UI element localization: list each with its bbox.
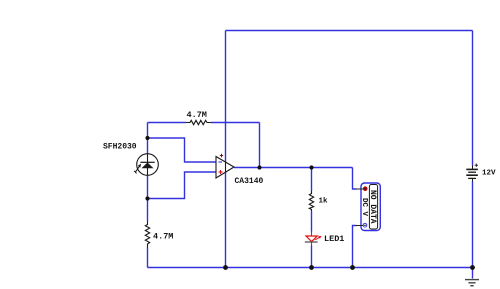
- battery B1 12V: [466, 164, 478, 182]
- plus mark: [475, 164, 478, 166]
- pin + non-inverting mark: [219, 170, 223, 174]
- wire op-amp V+ supply vertical: [225, 31, 227, 268]
- wire op-amp output: [234, 167, 353, 169]
- LED LED1: [305, 232, 322, 246]
- svg-text:4.7M: 4.7M: [187, 110, 207, 120]
- svg-text:NO DATA: NO DATA: [368, 190, 377, 224]
- wire feedback horizontal: [148, 122, 187, 124]
- svg-text:DC V: DC V: [360, 198, 368, 217]
- wire left branch resistor bottom: [147, 248, 149, 268]
- pin - inverting mark: [219, 161, 223, 163]
- wire left branch photodiode top: [147, 123, 149, 155]
- wire left branch photodiode bottom: [147, 175, 149, 221]
- wire LED branch bottom: [311, 246, 313, 268]
- pin + power mark: [220, 154, 223, 157]
- photodiode D1 SFH2030: [134, 154, 158, 176]
- wire battery top vertical: [472, 31, 474, 166]
- wire meter minus lead: [353, 226, 357, 268]
- wire feedback vertical to output: [259, 123, 261, 168]
- wire LED branch middle: [311, 211, 313, 232]
- junction node non-inverting: [145, 196, 149, 200]
- resistor R1 4.7M horizontal feedback: [186, 120, 211, 124]
- wire non-inverting input: [148, 172, 217, 199]
- junction node LED branch top: [309, 165, 313, 169]
- wire meter plus lead: [353, 168, 357, 190]
- pin V+/V- stem through body: [225, 162, 227, 173]
- junction node supply bottom: [223, 265, 228, 270]
- svg-text:LED1: LED1: [324, 234, 344, 244]
- junction node meter bottom: [350, 265, 355, 270]
- svg-text:4.7M: 4.7M: [153, 232, 173, 242]
- ground: [465, 268, 479, 286]
- wire inverting input: [148, 138, 217, 162]
- terminal -: [356, 225, 363, 227]
- junction node battery-ground: [470, 265, 475, 270]
- wire LED branch top: [311, 168, 313, 192]
- wire battery bottom vertical: [472, 182, 474, 268]
- resistor R2 4.7M vertical: [145, 221, 149, 248]
- meter M1 DC voltmeter: [356, 183, 380, 231]
- junction node feedback-output: [257, 165, 261, 169]
- junction node inverting: [145, 136, 149, 140]
- wire top rail: [226, 30, 473, 32]
- terminal +: [356, 188, 363, 190]
- svg-text:SFH2030: SFH2030: [103, 142, 137, 151]
- op-amp U1 CA3140: [216, 154, 234, 178]
- resistor R3 1k: [309, 191, 313, 211]
- junction node LED branch bottom: [309, 265, 314, 270]
- wire bottom rail: [148, 267, 473, 269]
- svg-text:1k: 1k: [319, 198, 329, 206]
- svg-text:CA3140: CA3140: [235, 177, 264, 186]
- svg-text:12V: 12V: [482, 170, 496, 178]
